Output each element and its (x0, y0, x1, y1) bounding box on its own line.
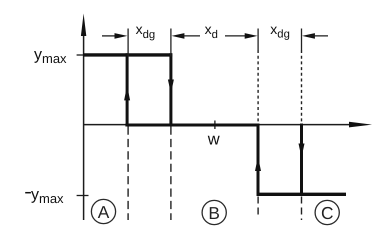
dashed phase line at x=258 upper (257, 50, 259, 123)
up arrow on bottom pulse left edge (255, 157, 261, 172)
circle B (202, 200, 226, 224)
down arrow on falling edge (168, 80, 174, 94)
up arrow on rising edge (124, 86, 130, 101)
dashed phase line at x=171 (170, 127, 172, 221)
y_max tick (77, 54, 89, 56)
dashed phase line at x=258 lower (257, 197, 259, 217)
circle C (315, 200, 339, 224)
circle A (91, 199, 115, 223)
dashed phase line at x=128 (127, 127, 129, 221)
svg-text:B: B (208, 203, 220, 223)
y axis (83, 22, 85, 220)
w tick (214, 121, 216, 130)
curve: bottom level line (257, 193, 347, 196)
svg-text:C: C (321, 203, 333, 223)
label -y_max (25, 192, 31, 194)
dimension extension line x=258 (257, 29, 259, 51)
x axis (84, 124, 351, 126)
dimension extension line x=171 (170, 29, 172, 57)
dim leader left of x_dg1 (102, 35, 118, 37)
down arrow on bottom pulse right edge (299, 144, 305, 158)
svg-text:A: A (98, 202, 110, 222)
curve: rising edge at x_A (126, 53, 129, 126)
curve: falling edge into bottom pulse (257, 124, 260, 197)
dashed phase line at x=301.5 lower (301, 197, 303, 221)
dimension extension line x=301.5 (301, 29, 303, 51)
arrow right at x=258 (245, 33, 258, 39)
arrow right at x=128 (115, 33, 128, 39)
x axis arrowhead (349, 122, 372, 128)
y axis arrowhead (81, 14, 86, 37)
arrow left at x=171 (172, 33, 185, 39)
-y_max tick (77, 195, 89, 197)
curve: top level line (83, 53, 172, 56)
curve: falling edge at end of top pulse (169, 53, 172, 126)
dim line x_d right part (225, 35, 250, 37)
dimension extension line x=128 (127, 29, 129, 57)
arrow left at x=301.5 (302, 33, 315, 39)
curve: zero level line (125, 124, 259, 127)
dim line x_d left part (180, 35, 200, 37)
curve: right edge of bottom pulse (300, 124, 303, 197)
svg-text:w: w (207, 130, 220, 148)
dim leader right of x_dg2 (308, 35, 328, 37)
dashed phase line at x=301.5 upper (301, 50, 303, 123)
